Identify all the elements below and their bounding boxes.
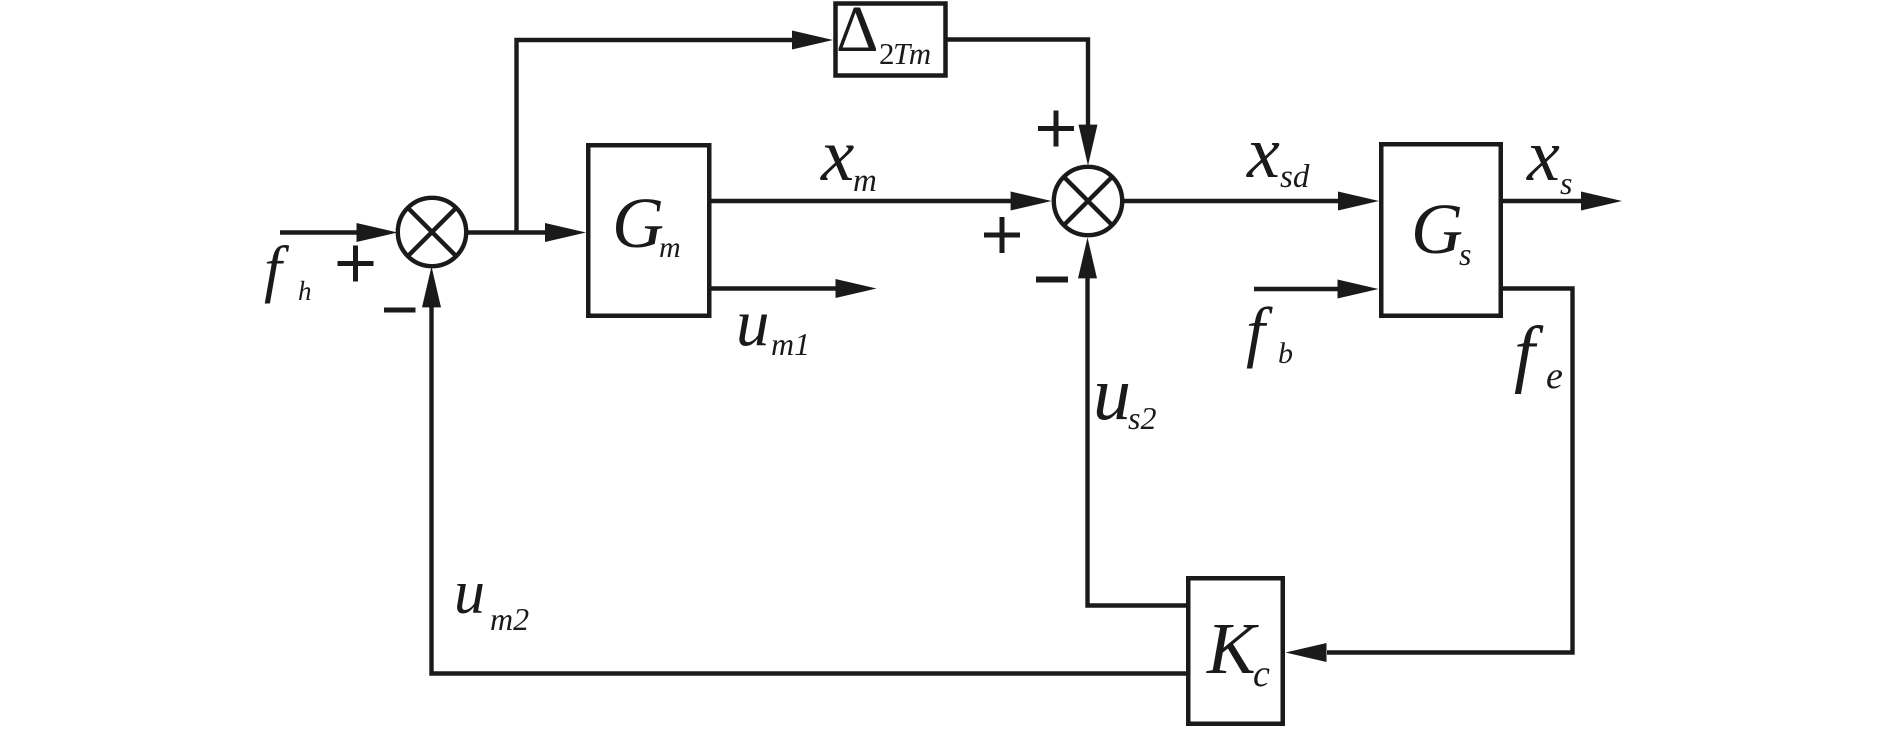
- svg-text:m1: m1: [771, 326, 810, 362]
- svg-text:2Tm: 2Tm: [879, 36, 931, 71]
- svg-text:s: s: [1560, 165, 1572, 201]
- plus sign S2 left: [984, 217, 1020, 253]
- minus sign S2: [1036, 277, 1068, 283]
- svg-text:sd: sd: [1280, 159, 1310, 195]
- svg-text:h: h: [298, 276, 312, 306]
- svg-text:u: u: [736, 286, 770, 360]
- svg-text:K: K: [1206, 608, 1259, 689]
- wire x_m Gm to S2: [711, 199, 1012, 203]
- wire x_s output: [1503, 199, 1582, 203]
- svg-text:Δ: Δ: [836, 0, 878, 66]
- wire u_s2 from Kc into S2: [1088, 278, 1189, 606]
- svg-text:b: b: [1278, 337, 1293, 370]
- wire u_m1 output: [711, 286, 836, 290]
- svg-text:s: s: [1459, 236, 1471, 272]
- wire S1 to Gm: [466, 230, 548, 234]
- summing junction S2: [1054, 167, 1122, 235]
- svg-text:s2: s2: [1128, 400, 1156, 436]
- svg-text:u: u: [1093, 352, 1131, 436]
- svg-text:m: m: [853, 163, 877, 199]
- minus sign S1: [384, 308, 416, 313]
- block Kc box: [1188, 578, 1283, 724]
- plus sign S1: [338, 246, 374, 282]
- svg-text:x: x: [1526, 115, 1560, 197]
- svg-text:u: u: [454, 559, 485, 627]
- wire f_b input: [1254, 287, 1340, 291]
- wire Delta to S2: [946, 40, 1088, 127]
- wire f_h input: [280, 230, 358, 234]
- svg-text:x: x: [1246, 112, 1280, 194]
- svg-text:e: e: [1546, 355, 1563, 397]
- block Gs box: [1381, 144, 1501, 316]
- wire u_m2 from Kc to S1: [432, 307, 1187, 674]
- wire x_sd S2 to Gs: [1122, 199, 1340, 203]
- block Gm box: [588, 145, 709, 316]
- block Delta2Tm box: [836, 4, 946, 76]
- svg-text:m: m: [659, 231, 681, 264]
- wire f_e from Gs to Kc: [1327, 289, 1573, 653]
- plus sign S2 top: [1038, 111, 1074, 147]
- wire branch vertical and top to Delta: [517, 40, 795, 233]
- svg-text:c: c: [1253, 653, 1270, 695]
- svg-text:G: G: [1411, 189, 1463, 269]
- svg-text:m2: m2: [490, 601, 529, 637]
- svg-text:G: G: [612, 183, 664, 263]
- svg-text:x: x: [820, 114, 854, 197]
- summing junction S1: [398, 198, 466, 266]
